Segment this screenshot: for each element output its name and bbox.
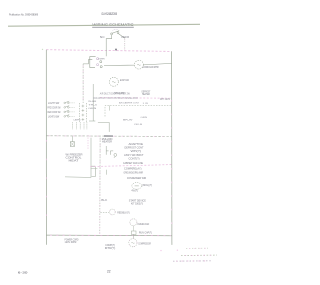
header rule [8,24,200,26]
wire right border N [171,51,173,245]
svg-text:HEAT: HEAT [69,160,80,163]
heater element dark segment [104,135,113,137]
svg-text:COMP(RELAY): COMP(RELAY) [124,168,142,171]
svg-text:NC: NC [100,35,105,39]
wire power cord dashed vertical [99,138,101,236]
wire overload to capacitor [133,226,135,231]
connector bracket right [92,166,96,176]
wire fuse lead [71,136,73,142]
svg-text:HEATER: HEATER [142,93,150,96]
wire defrost circuit dashed [90,165,171,167]
svg-text:RUN CAP(?): RUN CAP(?) [139,232,152,235]
svg-text:W-BR: W-BR [88,101,97,103]
wire switch left lead [106,35,111,56]
svg-text:COND FAN MTR: COND FAN MTR [143,65,159,69]
svg-text:ASSY WF BRKT: ASSY WF BRKT [124,154,144,157]
svg-text:LIGHTS 60W: LIGHTS 60W [48,116,60,119]
motor condenser fan [135,60,144,69]
connector J1 pin marks [82,105,85,121]
wire left border L1 [45,50,47,245]
svg-text:GLHS268ZDB5: GLHS268ZDB5 [101,12,117,16]
svg-text:BR-W: BR-W [123,119,134,121]
overload protector [130,219,137,226]
svg-text:DEFROST CONT: DEFROST CONT [125,146,145,149]
lamp L1 [72,122,74,129]
wire right border pink dashes [171,100,173,233]
wire mullion heater bus pink [49,135,171,138]
wire mullion heater bus [46,135,171,138]
wire control vertical A [90,138,92,178]
svg-text:OVERLOAD: OVERLOAD [137,223,149,226]
wire control vertical C [105,146,107,155]
switch defrost-termination NC contacts [111,33,113,35]
PTC relay [109,209,115,215]
wire harness dashed stub [87,135,89,150]
wire control vertical B [95,167,97,177]
lamp L2 [75,122,77,129]
compressor motor [129,239,137,247]
svg-text:AIR DAMPER CONT: AIR DAMPER CONT [119,101,140,104]
defrost timer outline [90,57,96,68]
svg-text:GRN: GRN [88,108,97,110]
svg-text:GRN: GRN [141,117,148,119]
wire condenser fan to N [143,63,171,65]
capacitor run [131,231,136,234]
svg-text:Publication No. 5995438089: Publication No. 5995438089 [9,12,38,16]
perforation dots row2 [173,260,211,262]
wire bottom bus pink dashes [50,234,171,237]
stray pink dot A [160,250,161,251]
wire run capacitor stub [100,212,109,214]
perforation dots row0 [186,247,208,249]
defrost timer terminal 1 [97,58,99,60]
wire damper bracket [105,105,172,116]
svg-text:BLK: BLK [101,200,108,202]
node junction arrow [115,49,117,51]
svg-text:CONDENSER WIR: CONDENSER WIR [127,177,146,180]
wire thermostat vertical [92,84,94,121]
wire cabinet liner dashed mid [100,97,172,100]
svg-text:WH 120V: WH 120V [160,98,170,101]
switch light row 3 [64,111,66,113]
connector J1 column B [85,103,87,123]
wire lower-left run [65,176,91,179]
svg-text:EVAP FAN: EVAP FAN [120,79,129,82]
svg-text:AIR DUCT DOOR HEATER 2W: AIR DUCT DOOR HEATER 2W [100,93,131,96]
svg-text:RED/BLK(?): RED/BLK(?) [117,212,130,215]
motor evaporator fan [109,77,118,86]
defrost timer terminal 2 [100,61,102,63]
wire bottom bus [46,234,171,237]
wire control bracket [98,123,109,132]
lamp L4 [83,122,85,129]
svg-text:FRZ AIR DUCT AND CONTROL HOUSI: FRZ AIR DUCT AND CONTROL HOUSING ASSY [93,97,138,100]
svg-text:FRZ DOOR SW: FRZ DOOR SW [48,107,62,110]
svg-text:MTR(?): MTR(?) [105,247,116,250]
svg-text:TH-4: TH-4 [88,105,98,107]
thermostat cold control [106,151,113,155]
lamp L3 [79,122,81,129]
node top-left corner dot [42,49,43,50]
svg-text:COMPRESSOR: COMPRESSOR [138,242,151,245]
switch light row 4 [64,116,66,118]
svg-text:22: 22 [107,269,111,273]
fuse defrost [70,142,74,147]
switch light row 2 [64,107,66,109]
svg-text:CABINET AND LINE: CABINET AND LINE [123,162,143,165]
wire switch right lead [118,34,124,39]
switch light row 1 [64,102,66,104]
svg-text:REF DOOR SW: REF DOOR SW [48,111,62,114]
svg-text:GROUND(GRN) WIR: GROUND(GRN) WIR [124,172,144,175]
wire freezer harness vertical [82,64,84,103]
wire left border pink dashes [45,140,47,230]
motor timer drive [132,183,142,190]
defrost timer terminal 4 [100,66,102,68]
svg-text:120V 60HZ: 120V 60HZ [65,241,78,244]
wire timer input stub [83,60,92,64]
svg-text:CONT(?): CONT(?) [129,158,140,161]
wire lamp corner [89,120,95,122]
lamp L5 [86,122,88,129]
svg-text:DEFR: DEFR [122,36,130,39]
wire timer to condenser fan [104,64,135,66]
wire thermostat lead [105,170,107,175]
svg-text:LAMPS: LAMPS [74,119,82,122]
cabinet outline top dashed wire [46,50,171,52]
perforation dots row1 [181,254,217,257]
svg-text:4W(?): 4W(?) [131,191,138,193]
connector J1 column A [79,103,81,123]
svg-text:LIGHT SW: LIGHT SW [48,102,60,105]
wire capacitor to bus [133,234,135,238]
svg-text:6-30: 6-30 [18,271,28,275]
title underline [92,26,134,28]
defrost timer terminal 3 [97,64,99,66]
stray pink dot B [177,250,178,251]
svg-text:TIMER: TIMER [98,58,105,60]
svg-text:WH(?): WH(?) [131,150,142,153]
svg-text:HEATER: HEATER [102,140,112,143]
wire damper stub [108,105,110,110]
svg-text:KIT 5303(?): KIT 5303(?) [131,202,143,205]
svg-text:(MOL)(?): (MOL)(?) [142,184,152,187]
svg-text:OR-B: OR-B [134,124,143,126]
